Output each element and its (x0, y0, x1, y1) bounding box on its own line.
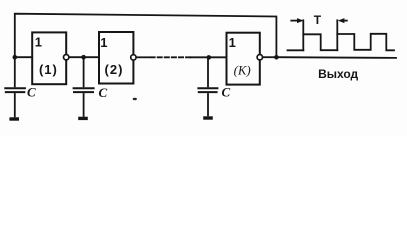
svg-text:(K): (K) (234, 62, 251, 77)
svg-text:C: C (99, 85, 108, 100)
svg-text:C: C (27, 85, 36, 100)
svg-text:C: C (222, 84, 231, 99)
svg-text:T: T (314, 13, 322, 27)
svg-text:(1): (1) (39, 62, 58, 77)
svg-text:1: 1 (35, 35, 42, 50)
svg-text:1: 1 (100, 35, 107, 50)
svg-text:(2): (2) (105, 62, 124, 77)
svg-text:Выход: Выход (318, 67, 358, 81)
svg-text:1: 1 (229, 35, 236, 50)
